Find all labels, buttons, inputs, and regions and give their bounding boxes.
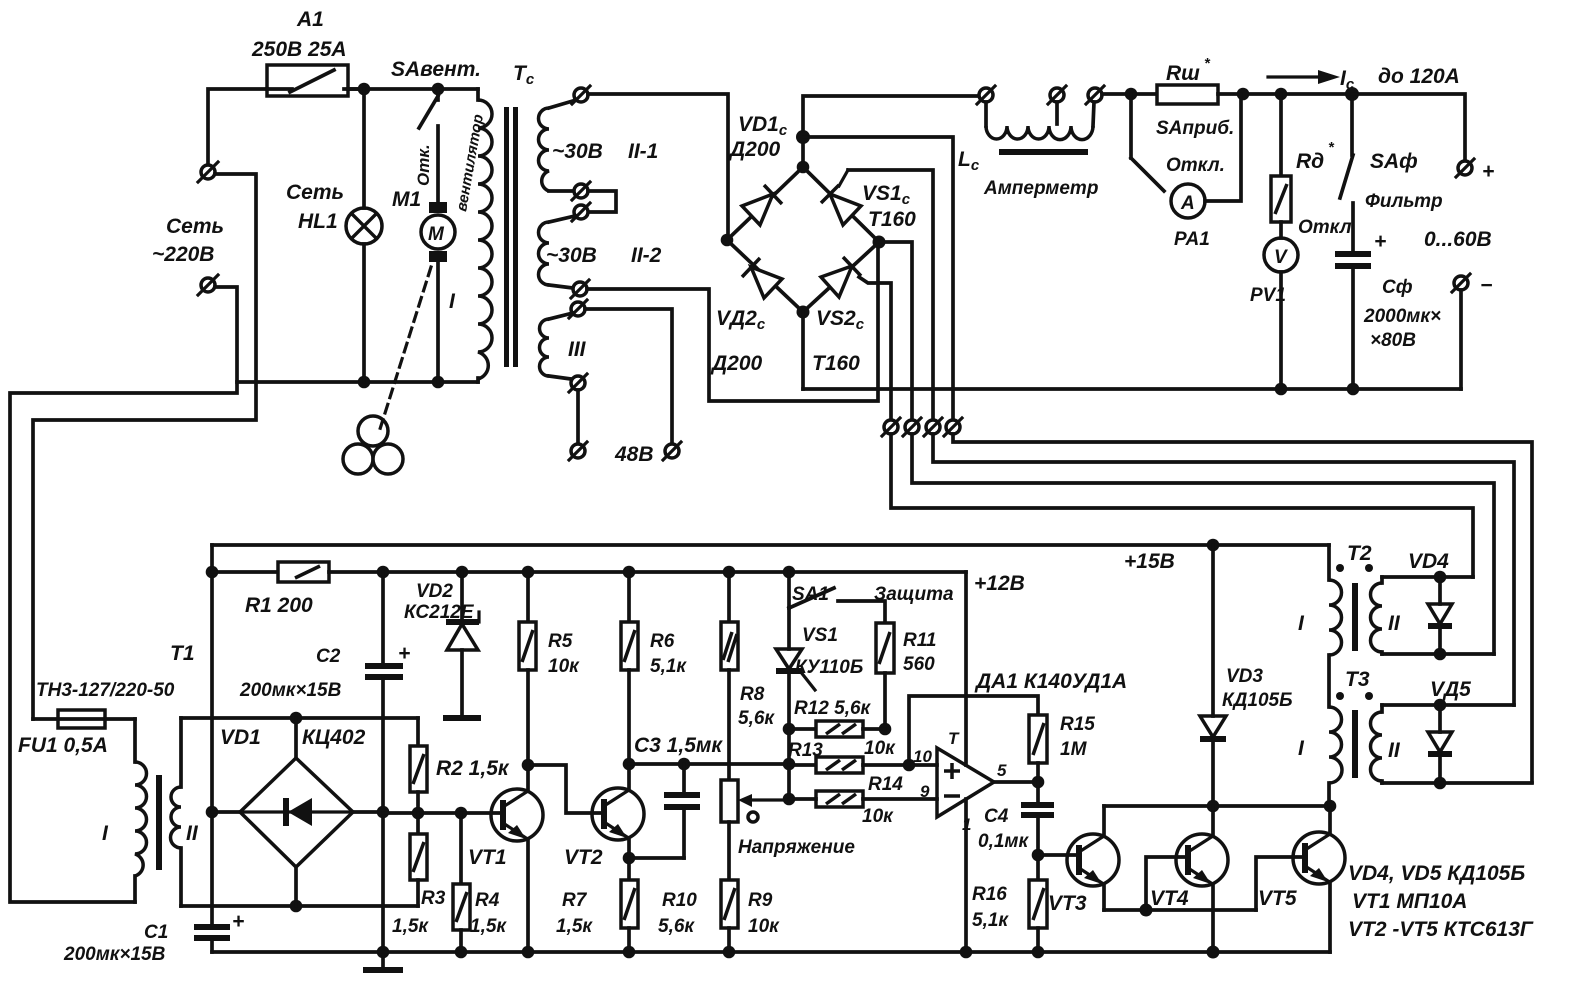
terminal: Lc connector right	[1086, 86, 1104, 104]
wire: VT1 collector to VT2 base	[528, 765, 605, 813]
node: VD5 top junction	[1434, 699, 1447, 712]
svg-text:С3 1,5мк: С3 1,5мк	[634, 734, 723, 757]
terminal: winding II-2 top	[572, 203, 590, 221]
fan blades (three lobes)	[343, 416, 403, 474]
switch SAф	[1340, 94, 1443, 212]
terminal: winding III bottom	[569, 374, 587, 392]
svg-text:~220В: ~220В	[152, 243, 214, 266]
node: R4 bottom junction	[455, 946, 468, 959]
svg-text:VS1: VS1	[802, 625, 838, 646]
transistor VT3 КТС613Г	[1048, 806, 1119, 915]
node: bridge bottom corner	[797, 306, 810, 319]
svg-text:R7: R7	[562, 890, 588, 911]
svg-text:5: 5	[997, 761, 1007, 780]
label: 48В	[614, 443, 654, 466]
svg-text:SAвент.: SAвент.	[391, 58, 481, 81]
transformer T3 secondary II	[1371, 705, 1401, 783]
node: T2 polarity dot right	[1365, 564, 1373, 572]
svg-text:1,5к: 1,5к	[556, 916, 593, 937]
node: bridge right corner	[873, 236, 886, 249]
resistor R8 5,6к	[721, 572, 775, 780]
wire: VT3 base lead	[1038, 853, 1079, 857]
wire: L rail from breaker to Tc primary	[348, 87, 478, 91]
node: ground riser at bus	[377, 946, 390, 959]
svg-text:II: II	[1388, 739, 1401, 762]
node: R4 top junction	[455, 807, 468, 820]
terminal: output minus	[1452, 274, 1492, 297]
svg-text:РА1: РА1	[1174, 229, 1210, 250]
node: rail right junction	[1324, 800, 1337, 813]
wire: II-1 top to bridge left corner	[588, 94, 728, 238]
T3 core	[1352, 710, 1358, 778]
svg-text:КЦ402: КЦ402	[302, 726, 366, 749]
svg-text:FU1 0,5А: FU1 0,5А	[18, 734, 108, 757]
resistor R14 10к	[789, 774, 937, 827]
terminal: connector 4	[944, 418, 962, 436]
svg-text:Т160: Т160	[868, 208, 916, 231]
terminal: 48V tap b	[663, 442, 681, 460]
svg-text:+: +	[1374, 230, 1386, 253]
svg-text:5,6к: 5,6к	[658, 916, 695, 937]
svg-text:VД5: VД5	[1430, 678, 1471, 701]
svg-text:R15: R15	[1060, 714, 1095, 735]
resistor R1 200	[212, 562, 329, 617]
svg-text:Т3: Т3	[1345, 668, 1370, 691]
label: T1 ТН3-127/220-50	[36, 642, 195, 701]
svg-text:1,5к: 1,5к	[470, 916, 507, 937]
node: filter top junction	[1345, 87, 1359, 101]
resistor R7 1,5к	[556, 858, 638, 952]
svg-text:КУ110Б: КУ110Б	[795, 657, 863, 678]
svg-text:R11: R11	[903, 630, 936, 651]
wire: connector 1 run to T2/T3 block	[891, 434, 1473, 577]
svg-text:Откл: Откл	[1298, 217, 1352, 238]
svg-text:VT1 МП10А: VT1 МП10А	[1352, 890, 1467, 913]
svg-text:VT2 -VT5 КТС613Г: VT2 -VT5 КТС613Г	[1348, 918, 1534, 941]
T2 core	[1352, 583, 1358, 651]
node: R16 bottom junction	[1032, 946, 1045, 959]
wire: bridge bottom corner to minus bus	[801, 312, 805, 389]
svg-text:Т2: Т2	[1347, 542, 1372, 565]
node: filter cap bottom junction	[1347, 383, 1360, 396]
resistor R11 560	[876, 623, 936, 729]
terminal: output plus	[1456, 159, 1494, 183]
svg-text:КД105Б: КД105Б	[1222, 690, 1293, 711]
node: VD4 top junction	[1434, 571, 1447, 584]
node: R12 left junction	[783, 723, 796, 736]
svg-text:~30В: ~30В	[546, 244, 597, 267]
terminal: winding II-1 bottom	[572, 182, 590, 200]
wire: to plus output terminal	[1352, 94, 1465, 161]
svg-text:II-1: II-1	[628, 140, 658, 163]
capacitor C4 0,1мк	[978, 782, 1054, 855]
resistor R5 10к	[519, 572, 580, 765]
svg-text:+: +	[1482, 160, 1494, 183]
svg-text:Rш: Rш	[1166, 62, 1200, 85]
wire: VT1 base line	[383, 811, 502, 815]
thyristor VS2c Т160 (lower-right arm)	[803, 242, 879, 375]
node: feedback tap on bridge top lead	[796, 130, 810, 144]
diode VD1c Д200 (upper-left arm)	[727, 113, 803, 240]
ground symbol at bus	[363, 952, 403, 970]
wire: T2 primary riser from +15V frame	[1327, 545, 1331, 580]
terminal: connector 2	[903, 418, 921, 436]
capacitor C3 1,5мк	[634, 734, 723, 858]
svg-text:II: II	[186, 822, 199, 845]
transformer Tc primary winding I	[449, 89, 492, 382]
svg-text:2000мк×: 2000мк×	[1363, 306, 1441, 327]
inductor Lc	[958, 102, 1098, 199]
svg-text:VT4: VT4	[1150, 887, 1189, 910]
node: VT4 base junction	[1140, 904, 1153, 917]
svg-text:III: III	[568, 338, 587, 361]
label: parts list	[1348, 862, 1534, 941]
terminal: gate connector 1	[882, 418, 900, 436]
svg-text:R12 5,6к: R12 5,6к	[794, 698, 872, 719]
svg-text:560: 560	[903, 654, 935, 675]
transformer T3 primary I	[1298, 707, 1342, 783]
svg-text:0...60В: 0...60В	[1424, 228, 1492, 251]
svg-text:Т1: Т1	[170, 642, 195, 665]
node: R7 bottom junction	[623, 946, 636, 959]
wire: mains L rail to breaker	[208, 89, 267, 165]
svg-text:R3: R3	[421, 888, 446, 909]
node: bridge top corner	[797, 161, 810, 174]
wire: VT collector rail	[1104, 804, 1330, 808]
terminal: winding III top	[569, 300, 587, 318]
svg-text:ДА1 К140УД1А: ДА1 К140УД1А	[974, 670, 1127, 693]
wire: II bottom to R3 line	[181, 904, 418, 908]
node: VD3 frame junction	[1207, 539, 1220, 552]
fuse FU1 0,5А	[18, 710, 135, 757]
svg-text:С1: С1	[144, 922, 168, 943]
terminal: Lc connector left	[977, 86, 995, 104]
svg-text:Т: Т	[948, 729, 960, 748]
wire: III top to 48V terminal	[585, 309, 672, 443]
node: T3 polarity dot right	[1365, 692, 1373, 700]
node: T2 polarity dot left	[1336, 564, 1344, 572]
node: R5 top junction	[522, 566, 535, 579]
switch SAвент	[391, 58, 481, 186]
transformer T2 secondary II	[1371, 577, 1401, 654]
wire: VS1c gate to connector 3	[848, 170, 933, 420]
winding II-2 of Tc	[539, 216, 662, 288]
svg-text:Сеть: Сеть	[166, 215, 224, 238]
wire: minus bus	[803, 387, 1461, 391]
wire: VS2c gate to connector 1	[859, 277, 891, 420]
svg-text:R14: R14	[868, 774, 903, 795]
svg-text:SAф: SAф	[1370, 150, 1418, 173]
svg-text:+: +	[232, 910, 244, 933]
svg-text:II-2: II-2	[631, 244, 662, 267]
node: motor bottom junction	[432, 376, 445, 389]
node: VD4 bottom junction	[1434, 648, 1447, 661]
node: SAвент top junction	[432, 83, 445, 96]
wire: +15V left riser	[210, 545, 214, 925]
resistor R12 5,6к	[789, 698, 885, 737]
wire: series link II-1 to II-2	[588, 191, 616, 212]
wire: T2 II bottom line	[1382, 652, 1494, 656]
zener diode VD2 КС212Е	[404, 572, 479, 716]
node: T3 polarity dot left	[1336, 692, 1344, 700]
svg-text:VT3: VT3	[1048, 892, 1087, 915]
wire: dashed mechanical link motor-fan	[380, 267, 431, 429]
node: VT1 emitter bus junction	[522, 946, 535, 959]
svg-text:Отк.: Отк.	[414, 144, 433, 186]
node: op-amp supply bus junction	[960, 946, 973, 959]
svg-text:5,6к: 5,6к	[738, 708, 775, 729]
node: VT2 collector junction	[623, 758, 636, 771]
label: +12В	[974, 572, 1025, 595]
resistor R15 1М (feedback)	[909, 696, 1095, 782]
svg-text:+: +	[398, 642, 410, 665]
transistor VT5 КТС613Г	[1258, 806, 1345, 952]
wire: VT2 emitter to C3 bottom	[629, 856, 684, 860]
svg-text:С4: С4	[984, 806, 1009, 827]
resistor R16 5,1к	[972, 855, 1047, 952]
winding II-1 of Tc	[539, 100, 659, 191]
node: R2/R3 junction	[412, 807, 425, 820]
transformer T1 secondary II	[171, 718, 199, 906]
svg-text:VD3: VD3	[1226, 666, 1263, 687]
transistor VT4 КТС613Г	[1150, 806, 1228, 952]
svg-text:Д200: Д200	[710, 352, 763, 375]
node: R6 top junction	[623, 566, 636, 579]
node: voltmeter bottom junction	[1275, 383, 1288, 396]
wire: Lc to shunt	[1102, 92, 1157, 96]
svg-text:10к: 10к	[748, 916, 780, 937]
node: lamp top junction	[358, 83, 371, 96]
svg-text:Фильтр: Фильтр	[1365, 191, 1443, 212]
wire: T3 II bottom line	[1382, 781, 1532, 785]
svg-text:×80В: ×80В	[1370, 330, 1416, 351]
svg-text:R6: R6	[650, 631, 675, 652]
node: bridge plus junction on riser	[206, 806, 219, 819]
wire: II-2 bottom to bridge right corner	[587, 244, 878, 401]
motor M1 вентилятор	[392, 113, 487, 382]
wire: VT3 emitter to VT4/VT5 base line	[1104, 908, 1256, 912]
terminal: Lc tap connector	[1048, 86, 1066, 104]
svg-text:HL1: HL1	[298, 210, 338, 233]
svg-text:5,1к: 5,1к	[650, 656, 687, 677]
potentiometer Напряжение	[721, 780, 855, 880]
switch SAприб	[1131, 94, 1234, 191]
wire: connector 2 run to T2/T3 block	[912, 434, 1494, 654]
thyristor VS1c Т160 (upper-right arm)	[803, 167, 916, 242]
wire: shunt to Rд node	[1218, 92, 1352, 96]
rectifier bridge VD1 КЦ402	[220, 726, 366, 867]
terminal: winding II-1 top	[572, 86, 590, 104]
node: bridge left corner	[721, 234, 734, 247]
svg-text:200мк×15В: 200мк×15В	[63, 944, 166, 965]
svg-text:А: А	[1180, 193, 1195, 214]
node: ground riser at base line	[377, 806, 390, 819]
wire: op-amp output	[994, 780, 1038, 784]
resistor Rд* (voltmeter dropper)	[1271, 94, 1335, 222]
svg-text:5,1к: 5,1к	[972, 910, 1009, 931]
wire: connector2 to N rail and T1 return	[10, 287, 237, 902]
lamp HL1 Сеть	[286, 89, 382, 382]
terminal: 48V tap a	[569, 442, 587, 460]
node: lamp bottom junction	[358, 376, 371, 389]
diode VD3 КД105Б	[1200, 545, 1293, 806]
svg-text:9: 9	[920, 782, 930, 801]
node: VT1 collector junction	[522, 759, 535, 772]
node: VT3 base junction	[1032, 849, 1045, 862]
ammeter PA1	[1171, 94, 1241, 250]
svg-text:Амперметр: Амперметр	[983, 178, 1098, 199]
Tc core	[504, 62, 535, 367]
wire: T3 primary link	[1327, 655, 1331, 707]
node: Rд top junction	[1275, 88, 1288, 101]
transformer T1 primary I	[102, 719, 147, 902]
wire: bridge right corner to connector 2	[879, 242, 912, 420]
node: R12 right junction	[879, 723, 892, 736]
wire: +12V rail	[329, 570, 966, 574]
svg-text:II: II	[1388, 612, 1401, 635]
wire: connector 4 run to T2/T3 block	[953, 434, 1532, 782]
svg-text:ТН3-127/220-50: ТН3-127/220-50	[36, 680, 175, 701]
terminal: gate connector 3	[924, 418, 942, 436]
svg-text:1М: 1М	[1060, 739, 1088, 760]
svg-text:М1: М1	[392, 188, 421, 211]
label: T3	[1345, 668, 1370, 691]
svg-text:R13: R13	[788, 740, 823, 761]
svg-text:200мк×15В: 200мк×15В	[239, 680, 342, 701]
svg-text:SAприб.: SAприб.	[1156, 118, 1234, 139]
control bottom bus	[212, 950, 1330, 954]
svg-text:R10: R10	[662, 890, 697, 911]
diode VD5 КД105Б	[1428, 678, 1471, 783]
terminal: mains connector 2	[198, 275, 218, 295]
svg-text:VD4, VD5 КД105Б: VD4, VD5 КД105Б	[1348, 862, 1525, 885]
wire: bridge top corner to Lc rail	[803, 96, 979, 165]
svg-text:+12В: +12В	[974, 572, 1025, 595]
svg-text:R8: R8	[740, 684, 765, 705]
svg-text:0,1мк: 0,1мк	[978, 831, 1029, 852]
node: R1 left junction	[206, 566, 219, 579]
wire: N bottom rail	[237, 380, 478, 384]
transistor VT1 МП10А	[468, 765, 543, 952]
svg-text:10: 10	[913, 747, 932, 766]
svg-text:~30В: ~30В	[552, 140, 603, 163]
node: ammeter right junction	[1237, 88, 1250, 101]
switch SA1 Защита	[789, 572, 954, 623]
label: 0...60В	[1424, 228, 1492, 251]
node: R13 left junction	[783, 758, 796, 771]
svg-text:Сф: Сф	[1382, 277, 1413, 298]
svg-text:VD2: VD2	[416, 581, 453, 602]
node: C2 top junction	[377, 566, 390, 579]
diode VД2c Д200 (lower-left arm)	[710, 240, 803, 375]
node: bridge AC top junction	[290, 712, 303, 725]
wire: II top to R2 line	[181, 716, 418, 720]
label: +15В	[1124, 550, 1175, 573]
circuit breaker A1 250В 25А	[251, 8, 368, 96]
wire: +15V top frame	[212, 543, 1329, 547]
resistor R13 10к	[788, 738, 937, 773]
transformer T2 primary I	[1298, 580, 1342, 655]
resistor R3 1,5к	[392, 813, 446, 937]
label: Откл (filter switch)	[1298, 217, 1352, 238]
svg-text:R2 1,5к: R2 1,5к	[436, 757, 510, 780]
resistor R2 1,5к	[410, 718, 510, 813]
capacitor Cф 2000мк x 80В	[1335, 203, 1441, 389]
ground symbol for VD2	[443, 715, 481, 721]
terminal: mains connector 1	[198, 162, 218, 182]
svg-text:1: 1	[962, 815, 971, 834]
svg-text:10к: 10к	[862, 806, 894, 827]
wire: T2 II top to VD4 and run	[1382, 575, 1473, 579]
transistor VT2 КТС613Г	[564, 764, 644, 869]
svg-text:VD1: VD1	[220, 726, 261, 749]
svg-text:R4: R4	[475, 890, 500, 911]
node: VD2 top junction	[456, 566, 469, 579]
svg-text:R9: R9	[748, 890, 773, 911]
svg-text:VT1: VT1	[468, 846, 507, 869]
node: bridge AC bottom junction	[290, 900, 303, 913]
diode VD4 КД105Б	[1408, 550, 1452, 654]
node: R8 top junction	[723, 566, 736, 579]
svg-text:R16: R16	[972, 884, 1007, 905]
svg-text:−: −	[1480, 274, 1492, 297]
resistor Rш* (shunt)	[1157, 55, 1218, 104]
node: R9 bottom junction	[723, 946, 736, 959]
svg-text:Т160: Т160	[812, 352, 860, 375]
thyristor VS1 КУ110Б	[776, 608, 863, 729]
svg-text:VT2: VT2	[564, 846, 603, 869]
node: VD5 bottom junction	[1434, 777, 1447, 790]
resistor R4 1,5к	[453, 813, 507, 952]
label: R10 5,6к	[658, 890, 697, 937]
svg-text:PV1: PV1	[1250, 285, 1286, 306]
wire: C3 top line	[629, 762, 789, 766]
resistor R9 10к	[721, 880, 780, 952]
svg-text:10к: 10к	[548, 656, 580, 677]
wire: T3 II top to VD5 and run	[1382, 703, 1514, 707]
node: VT4 emitter bus junction	[1207, 946, 1220, 959]
wire: bridge left stub to riser	[212, 810, 240, 814]
wire: VS1 anode riser continues	[787, 729, 791, 799]
svg-text:М: М	[428, 224, 445, 245]
node: VD3 rail junction	[1207, 800, 1220, 813]
svg-text:V: V	[1274, 247, 1288, 268]
wire: III bottom to 48V terminal	[576, 390, 580, 443]
svg-text:+15В: +15В	[1124, 550, 1175, 573]
svg-text:Откл.: Откл.	[1166, 155, 1225, 176]
node: SA1 rail junction	[783, 566, 796, 579]
wire: feedback tap to connector 4	[803, 137, 953, 420]
svg-text:А1: А1	[296, 8, 324, 31]
wire: VT4 base lead	[1146, 857, 1188, 910]
node: feedback junction on pin10 line	[903, 759, 916, 772]
resistor R6 5,1к	[621, 572, 687, 764]
svg-text:Д200: Д200	[728, 138, 781, 161]
wire: T3 primary to rail	[1327, 783, 1331, 806]
svg-text:Напряжение: Напряжение	[738, 837, 855, 858]
node: output junction	[1032, 776, 1045, 789]
capacitor C1 200мк x 15В	[63, 910, 244, 965]
wire: bridge right stub to ground riser	[353, 810, 383, 814]
wire: VT5 base lead	[1256, 857, 1305, 910]
wire: bridge bottom stub	[294, 867, 298, 906]
node: C3 top junction	[678, 758, 691, 771]
wire: connector 3 run to T2/T3 block	[933, 434, 1514, 705]
node: R14 left junction	[783, 793, 796, 806]
svg-text:Rд: Rд	[1296, 150, 1324, 173]
label: Сеть ~220В	[152, 215, 224, 266]
svg-text:R1 200: R1 200	[245, 594, 313, 617]
